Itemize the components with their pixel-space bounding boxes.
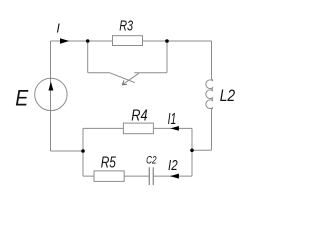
svg-text:I2: I2 bbox=[168, 158, 178, 174]
svg-text:C2: C2 bbox=[146, 155, 157, 167]
svg-text:R4: R4 bbox=[131, 107, 148, 124]
svg-text:E: E bbox=[15, 86, 29, 111]
svg-text:R3: R3 bbox=[119, 19, 133, 35]
svg-text:I: I bbox=[56, 22, 60, 36]
svg-text:I1: I1 bbox=[168, 111, 177, 128]
svg-text:L2: L2 bbox=[220, 86, 236, 105]
svg-text:R5: R5 bbox=[101, 155, 116, 172]
